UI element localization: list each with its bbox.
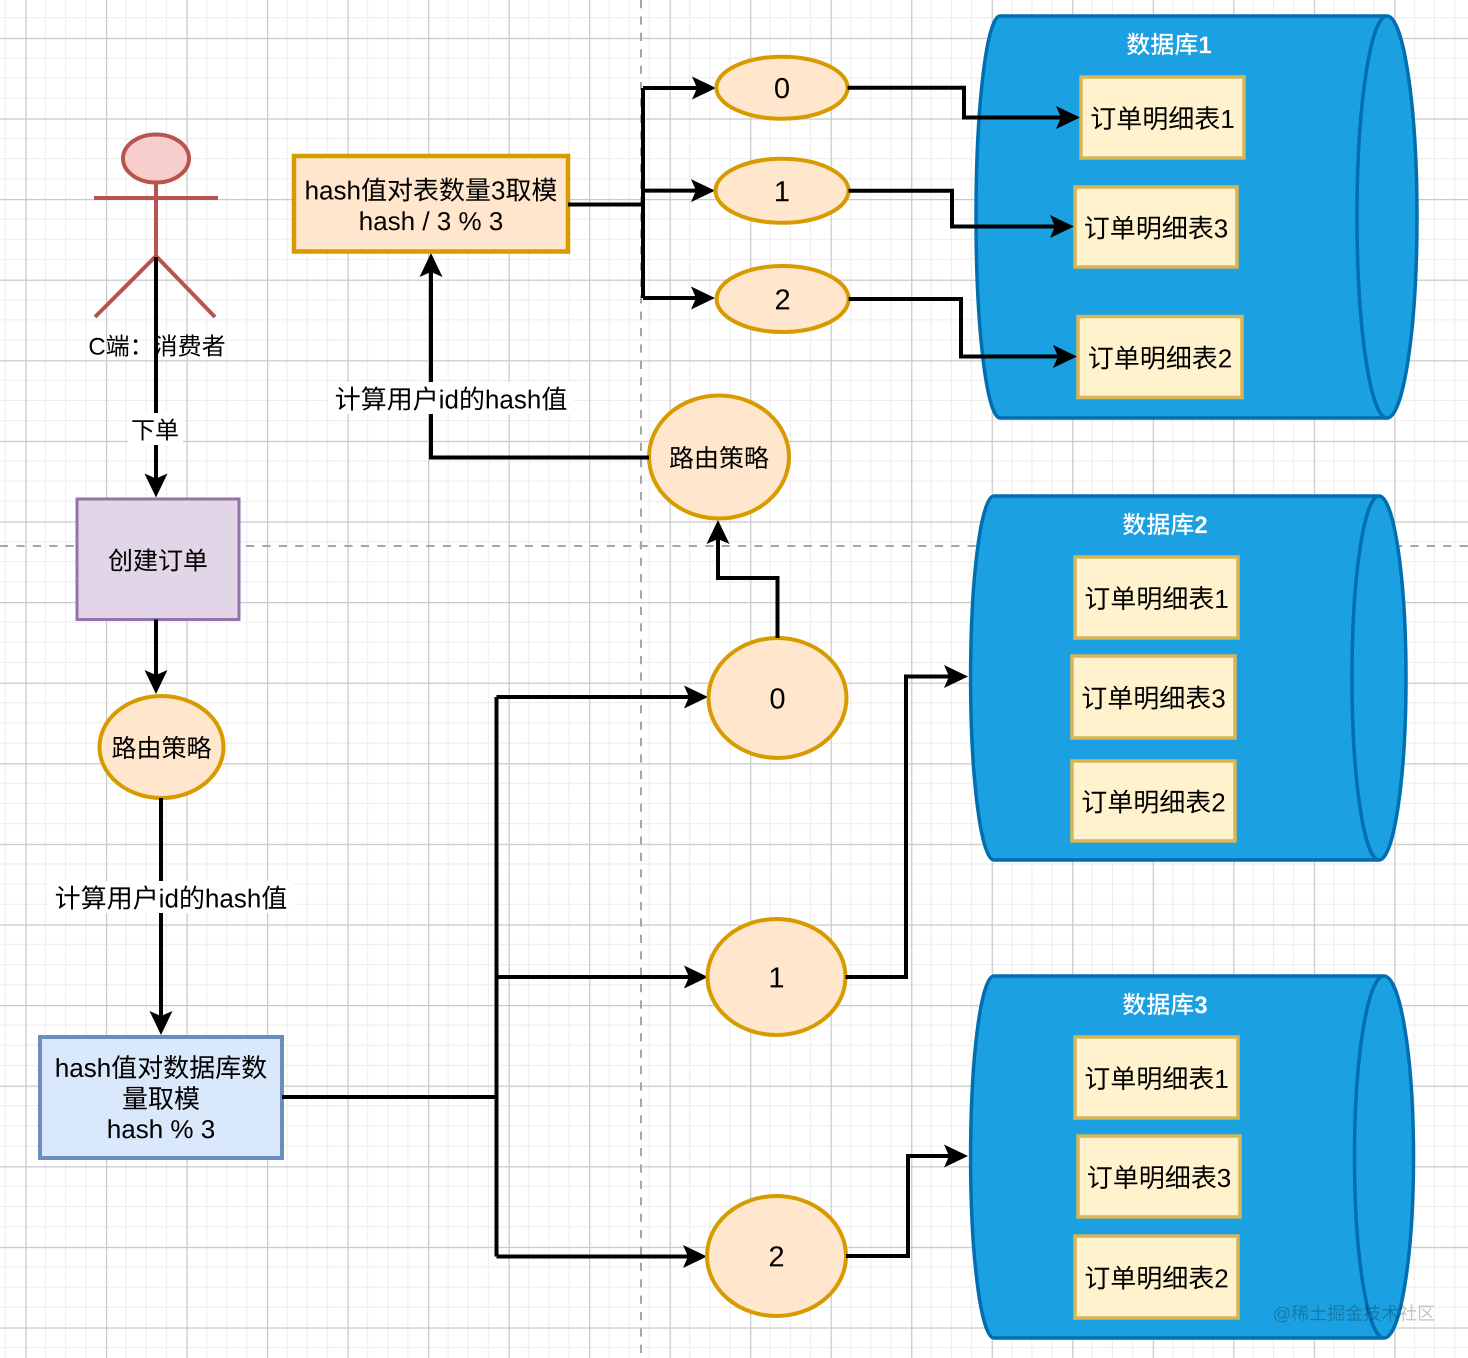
table: 订单明细表3 (db2) [1072, 656, 1235, 738]
watermark: @稀土掘金技术社区 [1274, 1304, 1434, 1322]
table: 订单明细表2 (db2) [1072, 761, 1235, 841]
guide: horizontal dashed page divider [0, 545, 1468, 547]
node: routing strategy circle (left) [100, 696, 224, 798]
wire: blue box to junction [282, 1095, 497, 1099]
wire: circle 0 up to routing strategy (center) [718, 529, 778, 638]
box: hash值对数据库数量取模 hash % 3 [40, 1037, 282, 1158]
wire: orange box to junction [568, 203, 643, 207]
box: hash值对表数量3取模 hash / 3 % 3 [294, 156, 568, 252]
wire: create-order to routing strategy [154, 620, 158, 685]
table: 订单明细表3 (db1) [1075, 187, 1237, 267]
guide: vertical dashed page divider [640, 0, 642, 1358]
node: db circle 0 [709, 638, 847, 758]
table: 订单明细表2 (db1) [1078, 317, 1242, 398]
table: 订单明细表1 (db3) [1075, 1037, 1238, 1118]
node: table ellipse 0 [716, 57, 847, 119]
wire: circle2 to 数据库3 [846, 1156, 958, 1256]
wire: ellipse1 to 订单明细表3 [849, 191, 1065, 227]
wire: junction trunk (top) [641, 88, 645, 298]
actor: C-end consumer stick figure [94, 135, 218, 318]
wire: ellipse0 to 订单明细表1 [848, 88, 1070, 118]
table: 订单明细表1 (db2) [1075, 557, 1238, 638]
cylinder: 数据库3 [971, 976, 1414, 1338]
table: 订单明细表2 (db3) [1075, 1236, 1238, 1318]
wire: junction trunk (left) [495, 697, 499, 1257]
cylinder: 数据库1 [976, 16, 1417, 418]
node: db circle 2 [707, 1196, 846, 1316]
wire: junction to db circle 0 [497, 695, 699, 699]
node: routing strategy circle (center) [649, 396, 789, 519]
node: table ellipse 1 [716, 159, 849, 223]
wire: junction to table ellipse 0 [643, 86, 707, 90]
cylinder: 数据库2 [971, 496, 1406, 860]
wire: circle1 to 数据库2 [846, 677, 959, 978]
wire: actor to create-order, label 下单 [154, 257, 158, 486]
wire: routing (center) to hash-table box, label 计算用户id的hash值 [431, 262, 649, 458]
wire: junction to table ellipse 2 [643, 296, 706, 300]
table: 订单明细表3 (db3) [1078, 1136, 1240, 1217]
node: table ellipse 2 [717, 266, 849, 332]
table: 订单明细表1 (db1) [1081, 77, 1244, 158]
wire: junction to db circle 2 [497, 1255, 698, 1259]
wire: junction to db circle 1 [497, 975, 699, 979]
wire: ellipse2 to 订单明细表2 [849, 299, 1067, 357]
label: C端：消费者 [90, 334, 225, 356]
wire: junction to table ellipse 1 [643, 189, 706, 193]
node: db circle 1 [708, 919, 846, 1035]
box: 创建订单 (create order) [77, 499, 239, 620]
wire: routing to hash-mod box, label 计算用户id的hash值 [159, 798, 163, 1025]
